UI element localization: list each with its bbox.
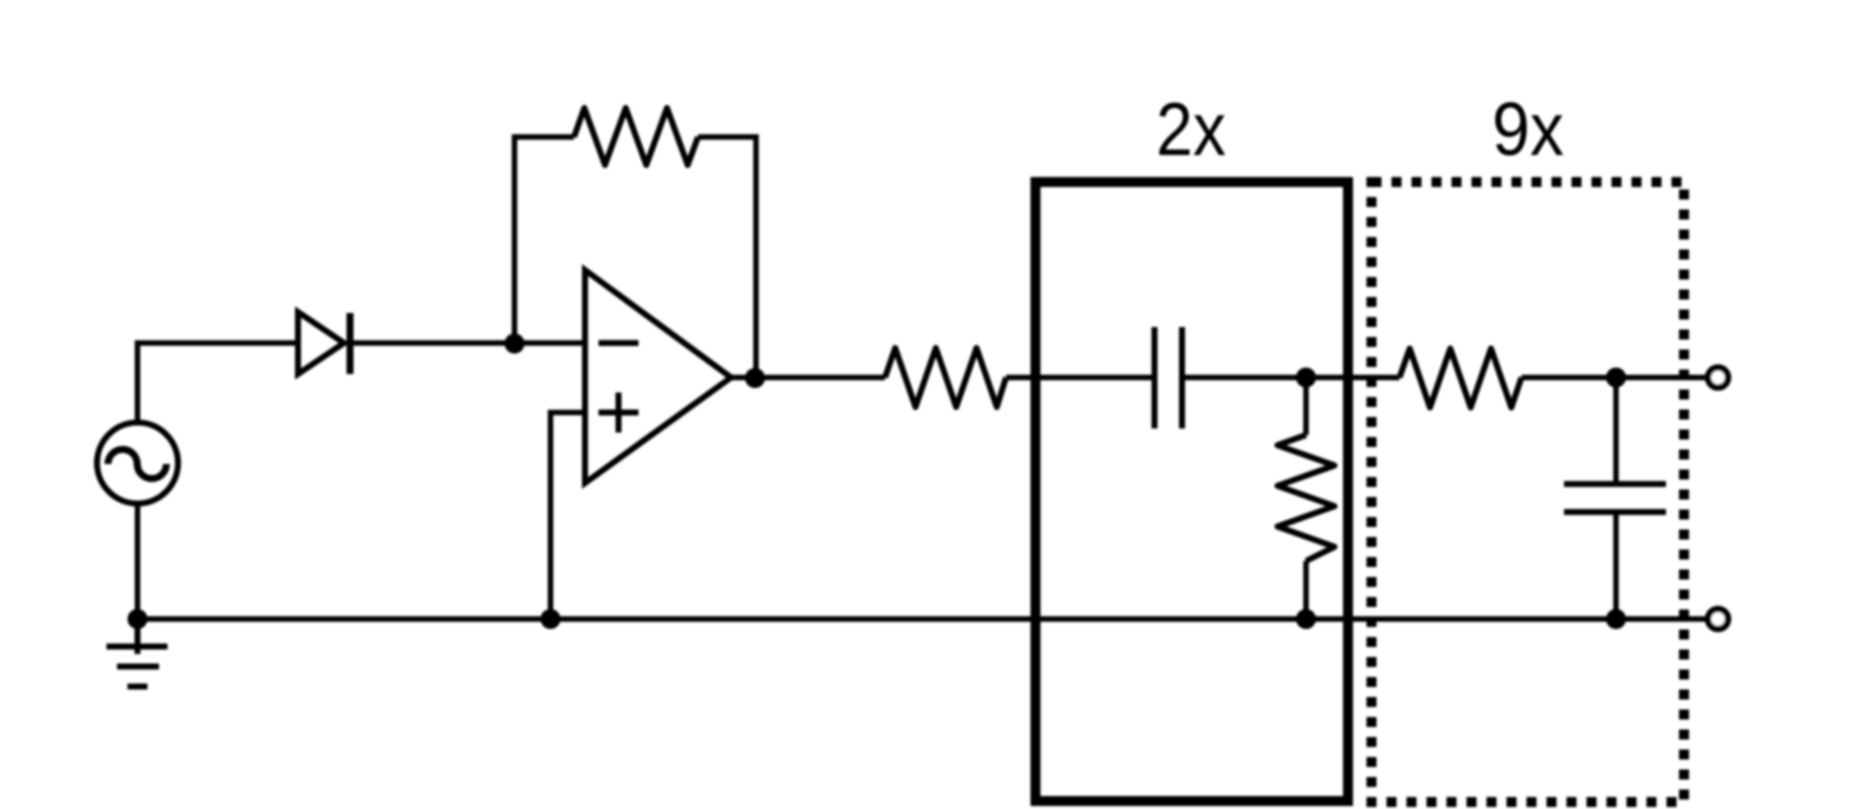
wire: feedback left riser [515,137,575,343]
op-amp minus label [599,340,639,346]
node: C2 bottom junction [1606,609,1626,629]
resistor R2 [885,348,1006,407]
node: ground junction [128,609,148,629]
node: inverting input junction [505,334,525,354]
node: R3 bottom junction [1296,609,1316,629]
op-amp plus label [599,393,639,433]
node: R4 output junction [1606,368,1626,388]
wire: R2 to capacitor C1 [1006,375,1155,381]
resistor R3 (shunt in 2x section) [1278,378,1335,620]
wire: C1 to 9x section [1182,375,1400,381]
wire: non-inverting input down to ground rail [551,413,586,620]
box: 2x section [1036,182,1349,801]
terminal: output - [1708,609,1728,629]
wire: bottom ground rail [138,616,1706,622]
op-amp U1 [585,270,731,483]
node: C1 output junction [1296,368,1316,388]
diode D1 [298,312,350,374]
ground [107,619,168,687]
wire: diode cathode to op-amp inverting input [350,340,585,346]
node: non-inverting input ground junction [541,609,561,629]
resistor R4 (series in 9x section) [1400,349,1522,408]
wire: source bottom to ground [135,504,141,620]
capacitor C1 [1155,327,1183,429]
ac source V1 [97,423,178,504]
box: 9x section (dotted) [1372,182,1685,802]
terminal: output + [1708,368,1728,388]
capacitor C2 (shunt in 9x section) [1564,378,1666,620]
resistor R1 (feedback) [574,108,698,165]
svg-text:9x: 9x [1492,87,1564,171]
wire: R4 to output terminal [1522,375,1706,381]
wire: feedback right riser to output [698,137,756,378]
node: op-amp output junction [745,368,765,388]
svg-text:2x: 2x [1156,87,1226,171]
wire: source top to diode anode [138,343,296,423]
wire: op-amp output to R2 [731,375,885,381]
